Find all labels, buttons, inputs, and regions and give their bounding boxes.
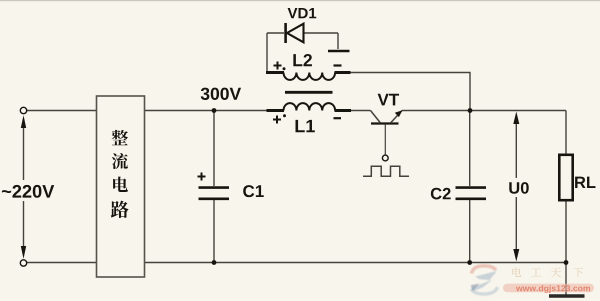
wire VD1 loop left vertical <box>266 33 268 72</box>
VT base drive wire <box>384 125 386 155</box>
U0 measurement arrow <box>513 112 519 262</box>
L1 plus sign <box>273 116 281 124</box>
L2 polarity dot <box>283 67 286 70</box>
label U0 <box>509 182 528 194</box>
wire VD1 anode-side horizontal <box>303 32 338 34</box>
wire RL branch vertical <box>565 111 567 296</box>
label 300V <box>201 88 241 100</box>
L1 polarity dot <box>283 114 286 117</box>
junction dot C1 bottom <box>212 260 217 265</box>
top edge line <box>0 0 600 1</box>
wire from VT emitter to output node <box>402 110 566 112</box>
L2 minus sign <box>334 64 342 66</box>
input terminal top (circle) <box>20 107 26 113</box>
junction dot C2 bottom <box>467 260 472 265</box>
watermark url bar <box>503 284 594 293</box>
capacitor C2 plates <box>456 188 487 199</box>
label C2 <box>431 188 451 200</box>
label C1 <box>243 185 264 197</box>
transistor VT emitter lead with arrow <box>391 110 403 123</box>
label L1 <box>296 120 315 132</box>
drive pulse waveform symbol <box>363 166 409 176</box>
wire L2 right lead to right then down to output node <box>351 73 471 111</box>
inductor L2 leads <box>266 71 351 74</box>
label L2 <box>293 54 312 66</box>
resistor RL <box>559 155 572 200</box>
wire top-left from input terminal to rectifier box <box>27 110 97 112</box>
rectifier block 整流电路 (box) <box>97 96 145 277</box>
junction dot output node top <box>468 108 473 113</box>
diode VD1 <box>286 23 304 43</box>
wire bottom-left from input terminal to rectifier box <box>27 262 97 264</box>
wire VD1 cathode-side horizontal <box>267 32 284 34</box>
inductor L1 leads <box>267 109 352 112</box>
transistor VT collector lead <box>371 111 381 124</box>
L2 plus sign <box>274 62 282 70</box>
node 300V junction dot <box>212 108 217 113</box>
label 整 (rectifier box char 1) <box>112 130 128 145</box>
input terminal bottom (circle) <box>20 260 26 266</box>
VT drive terminal circle <box>382 155 388 161</box>
junction dot RL bottom <box>564 260 569 265</box>
wire from L1 to VT base-left <box>351 110 371 112</box>
inductor L2 winding (humps down) <box>284 73 336 80</box>
label 路 (rectifier box char 4) <box>111 201 129 218</box>
label VT <box>378 94 399 106</box>
label 流 (rectifier box char 2) <box>112 153 128 169</box>
wire C2 branch vertical <box>469 111 471 263</box>
wire bottom rail from rectifier box to RL branch <box>144 262 566 264</box>
L1 minus sign <box>334 117 342 119</box>
~220V measurement arrow <box>21 115 26 259</box>
C1 plus sign <box>198 173 206 181</box>
bottom-right end bar <box>549 294 585 297</box>
label VD1 <box>288 8 317 18</box>
label RL <box>575 177 595 188</box>
label 电 (rectifier box char 3) <box>113 177 128 192</box>
wire VD1 right vertical drop <box>337 33 339 49</box>
watermark text 电工天下 <box>512 267 583 277</box>
watermark logo swirl <box>471 266 498 294</box>
wire C1 branch vertical <box>213 111 215 263</box>
capacitor C1 plates <box>199 188 230 199</box>
terminal bar below VD1 anode drop <box>328 50 350 53</box>
transistor VT base bar <box>371 122 399 124</box>
inductor L1 winding (humps up) <box>284 103 336 110</box>
wire top from rectifier box to L1 through 300V node <box>144 110 267 112</box>
transformer core bar <box>285 91 333 94</box>
label ~220V <box>2 185 54 198</box>
